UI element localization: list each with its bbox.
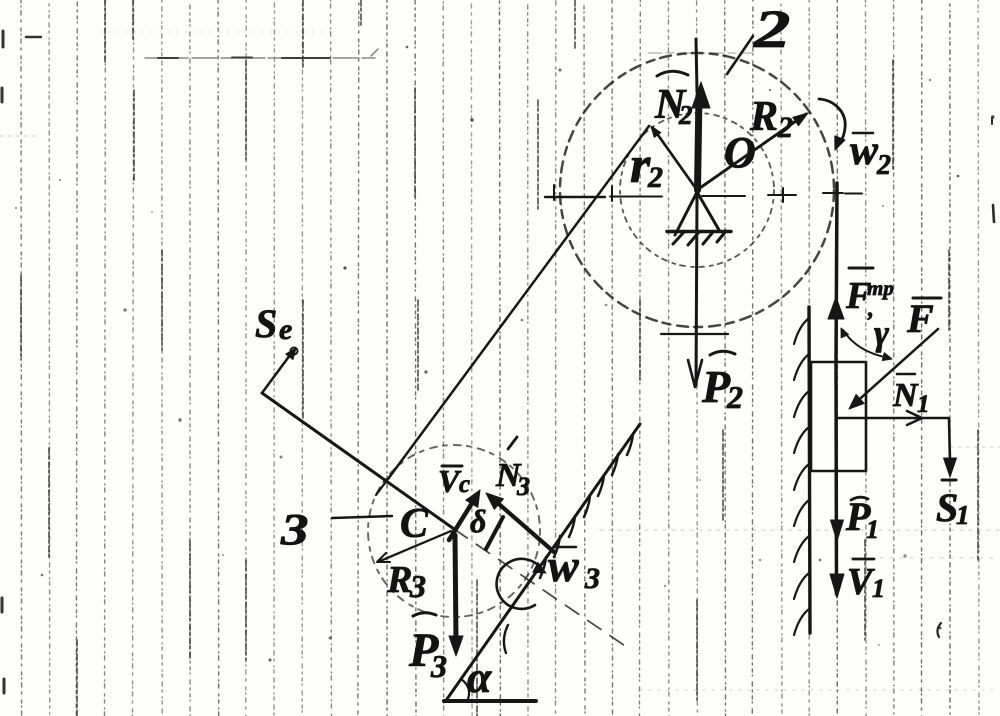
label N2 xyxy=(654,71,693,130)
svg-text:V: V xyxy=(847,561,875,603)
svg-text:2: 2 xyxy=(647,161,663,194)
dashed extension of cord beyond C xyxy=(454,529,628,648)
label Ftr xyxy=(845,268,894,322)
displacement S1 (down, at right) xyxy=(944,418,957,477)
inclined surface under wheel 3 xyxy=(447,424,640,699)
weight P1 (down) xyxy=(831,520,844,541)
angular velocity w2 curved arrow xyxy=(819,99,845,150)
svg-text:3: 3 xyxy=(280,505,309,554)
svg-text:2: 2 xyxy=(678,100,693,130)
svg-text:1: 1 xyxy=(956,500,970,530)
rope through block continuing down xyxy=(834,362,838,594)
label C (wheel 3 center) xyxy=(400,501,429,547)
label Se xyxy=(255,301,292,346)
label alpha xyxy=(467,653,492,702)
wheel 2 horizontal centerline xyxy=(545,185,862,202)
right/bottom edge scan marks xyxy=(937,117,994,637)
rolling-resistance offset tick delta xyxy=(486,517,503,549)
label 2 (wheel number) with leader xyxy=(727,0,790,74)
label F xyxy=(906,296,941,341)
radius arrow r2 xyxy=(651,126,697,190)
rope from inner pulley r2 down-left to wheel 3 xyxy=(388,126,649,479)
label Vc xyxy=(438,463,470,499)
svg-text:2: 2 xyxy=(876,150,891,181)
vector P3 (weight of wheel 3, down) xyxy=(449,535,463,656)
cord from corner bracket to center C xyxy=(262,393,454,529)
faint horizontal pencil tangent at wheel 2 top xyxy=(648,52,752,54)
label R3 xyxy=(386,559,426,604)
angular velocity w3 circular arrow xyxy=(497,559,546,609)
svg-text:1: 1 xyxy=(872,574,885,603)
svg-text:N: N xyxy=(892,377,919,414)
label delta xyxy=(470,503,486,539)
label P3 xyxy=(408,613,447,684)
label r2 xyxy=(630,137,663,194)
svg-text:3: 3 xyxy=(584,562,600,595)
svg-text:2: 2 xyxy=(777,111,793,144)
svg-text:c: c xyxy=(459,471,470,498)
stray pen mark near incline xyxy=(504,625,508,653)
label S1 xyxy=(936,480,970,530)
label V1 xyxy=(847,559,885,603)
vector N3 (normal reaction on wheel 3) xyxy=(486,493,554,552)
svg-text:R: R xyxy=(386,559,412,601)
rope stub beyond junction xyxy=(376,479,388,495)
rope from wheel 2 rim down to block 1 xyxy=(823,183,843,362)
left edge scan marks xyxy=(2,31,41,693)
label P1 xyxy=(845,494,879,544)
svg-text:w: w xyxy=(850,128,879,174)
svg-text:δ: δ xyxy=(470,503,486,539)
force F (applied, down-left into block corner) xyxy=(849,329,938,409)
label P2 xyxy=(701,351,743,415)
label R2 xyxy=(749,94,793,144)
wheel 2 vertical axis line xyxy=(696,39,697,92)
stray horizontal pencil line xyxy=(145,49,378,58)
incline hatching xyxy=(540,434,633,578)
radius arrow R3 xyxy=(377,531,451,562)
label 3 (wheel number) with leader xyxy=(280,505,392,554)
svg-text:1: 1 xyxy=(917,391,930,418)
svg-text:e: e xyxy=(279,313,292,346)
svg-text:3: 3 xyxy=(409,568,426,604)
svg-text:C: C xyxy=(400,501,429,547)
svg-text:α: α xyxy=(467,653,492,702)
wall line xyxy=(809,307,810,633)
svg-text:1: 1 xyxy=(866,515,879,544)
wall hatching xyxy=(794,318,809,635)
friction force Ftr (up along rope) xyxy=(828,297,844,319)
svg-text:2: 2 xyxy=(753,0,791,59)
block 1 rectangle xyxy=(811,362,866,471)
label O (center) xyxy=(724,128,756,177)
svg-text:3: 3 xyxy=(430,648,447,684)
label N3 with accent xyxy=(495,437,530,501)
svg-text:R: R xyxy=(749,94,778,140)
label w3 xyxy=(548,540,600,595)
corner bracket and vector Se xyxy=(262,348,298,394)
svg-text:3: 3 xyxy=(516,472,530,501)
angle alpha arc xyxy=(461,679,469,699)
vector N2 (thick up arrow at center O) xyxy=(692,82,710,190)
velocity V1 (down) xyxy=(830,574,844,598)
label gamma xyxy=(874,313,889,353)
normal reaction N1 (right) xyxy=(836,411,948,425)
angle gamma arc with arrowheads xyxy=(841,328,892,361)
label w2 xyxy=(850,128,891,181)
wheel 3 dashed circle xyxy=(368,445,540,617)
svg-text:2: 2 xyxy=(726,379,743,415)
pin support at O xyxy=(667,192,731,245)
wheel 2 inner circle (dashed, radius r2) xyxy=(620,113,774,267)
svg-text:F: F xyxy=(906,296,934,341)
label N1 xyxy=(892,374,930,418)
svg-text:,: , xyxy=(867,296,874,322)
angle alpha baseline xyxy=(444,699,536,703)
vector Vc (velocity of C) xyxy=(449,490,480,540)
vector P2 (weight of wheel 2, down) xyxy=(661,196,728,387)
wheel 2 outer circle (dashed, radius R2) xyxy=(560,53,834,327)
radius arrow R2 xyxy=(697,113,808,190)
svg-text:S: S xyxy=(936,485,958,530)
svg-text:γ: γ xyxy=(874,313,889,353)
svg-text:S: S xyxy=(255,301,277,346)
